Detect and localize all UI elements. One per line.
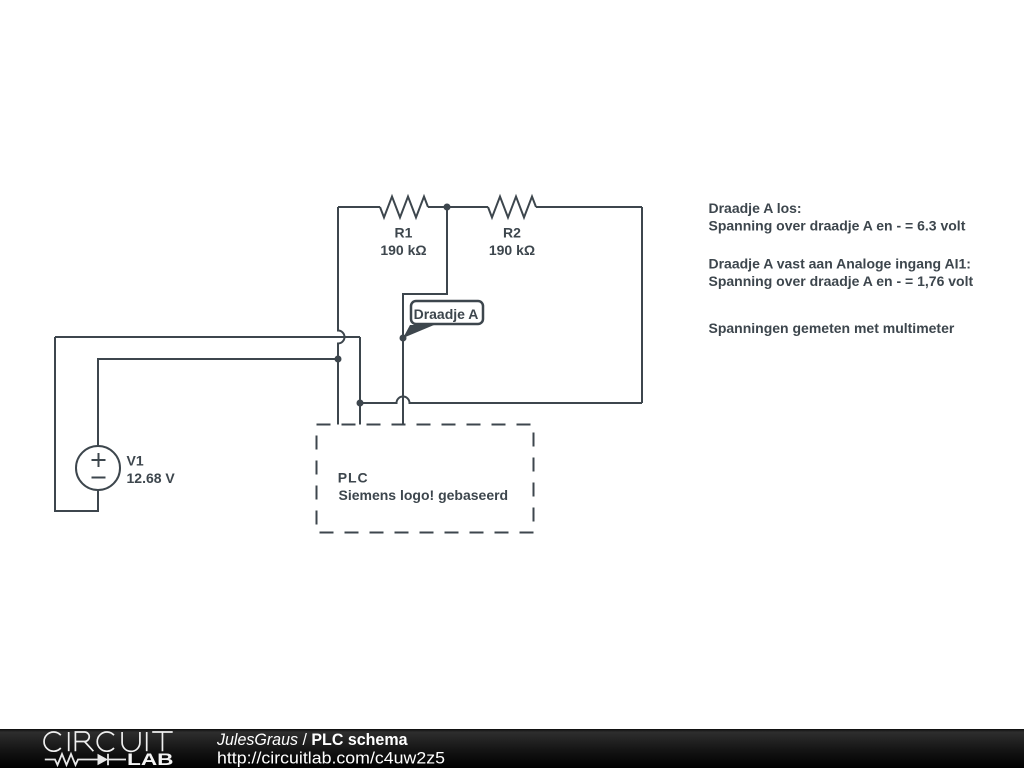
logo resistor zigzag — [45, 754, 98, 765]
wire bottom with hop over draadje wire — [360, 397, 642, 403]
wire right vertical — [641, 207, 643, 403]
svg-text:Draadje A vast aan Analoge ing: Draadje A vast aan Analoge ingang AI1: — [709, 256, 971, 272]
V1 minus sign — [92, 477, 106, 479]
node A callout pointer — [403, 325, 434, 338]
PLC dashed box — [317, 425, 534, 533]
svg-text:190 kΩ: 190 kΩ — [380, 242, 426, 258]
logo CIRCUIT letter R — [75, 732, 93, 751]
logo CIRCUIT letter C — [44, 732, 61, 751]
node junction dot minus rail at left vertical — [335, 356, 342, 363]
resistor R1 — [380, 197, 428, 218]
svg-text:190 kΩ: 190 kΩ — [489, 242, 535, 258]
svg-text:R1: R1 — [395, 225, 413, 241]
node A callout box Draadje A — [411, 301, 483, 324]
logo CIRCUIT letter U — [122, 732, 140, 751]
node junction dot R1-R2 — [444, 204, 451, 211]
svg-text:Draadje A: Draadje A — [414, 306, 479, 322]
node A dot (draadje A attach point) — [400, 335, 407, 342]
voltage source V1 circle — [76, 446, 120, 490]
wire node A drop: node down, jog left, down to PLC — [403, 207, 447, 425]
wire node to R2 — [447, 206, 488, 208]
wire minus rail: top horizontal, corner down to PLC — [55, 337, 360, 425]
svg-text:R2: R2 — [503, 225, 521, 241]
svg-text:Spanning over draadje A en - =: Spanning over draadje A en - = 1,76 volt — [709, 273, 974, 289]
svg-text:Spanning over draadje A en - =: Spanning over draadje A en - = 6.3 volt — [709, 218, 966, 234]
logo CIRCUIT letter T — [152, 732, 173, 751]
wire V1 bottom loop — [55, 337, 98, 511]
node junction dot bottom wire corner — [357, 400, 364, 407]
svg-text:LAB: LAB — [127, 751, 174, 768]
logo CIRCUIT letter C2 — [97, 732, 114, 751]
svg-text:JulesGraus / PLC schema: JulesGraus / PLC schema — [216, 731, 408, 749]
wire R1 to node — [428, 206, 447, 208]
wire R2 to right corner — [536, 206, 642, 208]
svg-text:PLC: PLC — [338, 470, 369, 486]
V1 plus sign — [92, 453, 106, 467]
svg-text:Spanningen gemeten met multime: Spanningen gemeten met multimeter — [709, 320, 955, 336]
svg-text:Draadje A los:: Draadje A los: — [709, 200, 802, 216]
svg-text:12.68 V: 12.68 V — [127, 470, 176, 486]
wire top-left lead — [338, 206, 380, 208]
svg-text:V1: V1 — [127, 453, 144, 469]
logo diode triangle — [98, 754, 109, 765]
resistor R2 — [488, 197, 536, 218]
logo CIRCUIT letter I2 — [146, 732, 148, 751]
svg-text:Siemens logo! gebaseerd: Siemens logo! gebaseerd — [339, 487, 509, 503]
logo CIRCUIT letter I — [68, 732, 70, 751]
svg-text:http://circuitlab.com/c4uw2z5: http://circuitlab.com/c4uw2z5 — [217, 749, 445, 768]
logo diode bar and lead — [108, 754, 126, 765]
wire left vertical with hop — [338, 207, 345, 425]
wire V1 plus to junction — [98, 359, 338, 446]
